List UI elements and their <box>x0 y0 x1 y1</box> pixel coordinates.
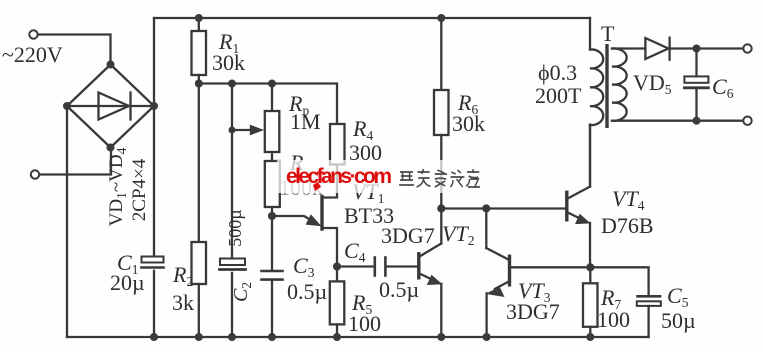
wire top supply rail <box>154 17 590 19</box>
svg-text:200T: 200T <box>535 83 582 108</box>
node C3 ground <box>268 333 276 341</box>
node C2 branch junction <box>228 80 236 88</box>
capacitor C3 <box>271 216 273 270</box>
wire VT4 emitter node to C5 <box>590 267 648 294</box>
transistor VT3 3DG7 <box>485 209 487 249</box>
diode VD5 <box>645 38 668 59</box>
svg-text:2CP4×4: 2CP4×4 <box>129 158 150 221</box>
wire upper AC to bridge top <box>38 35 111 63</box>
wire bridge left node down to ground rail (crossover) <box>66 106 68 337</box>
resistor R1 <box>198 18 200 31</box>
wire VT1 B2 to R4 <box>322 165 337 198</box>
svg-text:20µ: 20µ <box>110 270 145 295</box>
node Rp branch junction <box>268 80 276 88</box>
node R5 ground <box>333 333 341 341</box>
resistor R2 <box>198 84 200 243</box>
node C6 top <box>693 45 701 53</box>
node bridge left <box>63 102 71 110</box>
terminal DC output positive <box>743 44 751 52</box>
node VT1 B1 junction <box>333 262 341 270</box>
node bridge bottom <box>107 144 115 152</box>
resistor R 100k <box>271 152 273 161</box>
node VT3 collector junction <box>482 204 490 212</box>
bridge internal diode symbol <box>99 93 130 120</box>
node R6 top rail <box>437 14 445 22</box>
node bridge top <box>107 61 115 69</box>
node VT2 collector / R6 bottom <box>437 204 445 212</box>
bridge internal bus <box>67 105 154 107</box>
transistor VT2 3DG7 <box>417 254 420 278</box>
wire lower AC to bridge bottom <box>40 149 112 175</box>
node C6 bottom <box>693 117 701 125</box>
capacitor C1 <box>142 257 164 263</box>
wire emitter of VT1 <box>272 216 315 223</box>
node R7 ground <box>586 333 594 341</box>
watermark chinese characters <box>399 169 480 187</box>
node R1 top <box>195 14 203 22</box>
wire C1 to ground <box>153 271 155 337</box>
node R1 bottom junction <box>195 80 203 88</box>
wire secondary top to diode VD5 <box>612 47 645 49</box>
svg-text:VD1~VD4: VD1~VD4 <box>106 147 129 226</box>
wire bridge right node up to top rail <box>153 18 155 106</box>
svg-text:D76B: D76B <box>601 213 654 238</box>
wire ground bottom rail <box>67 336 649 338</box>
capacitor C5 <box>638 295 661 298</box>
svg-text:30k: 30k <box>212 50 245 75</box>
svg-text:1M: 1M <box>290 109 321 134</box>
resistor R7 <box>589 267 591 283</box>
node C2 ground <box>228 333 236 341</box>
transformer T primary winding <box>589 18 591 50</box>
terminal DC output negative <box>743 117 751 125</box>
node C1 ground <box>150 333 158 341</box>
svg-text:500µ: 500µ <box>225 209 245 246</box>
wire VT3 base to VT4 emitter node <box>511 266 591 268</box>
node VT2 emitter ground <box>437 333 445 341</box>
svg-text:100: 100 <box>348 311 381 336</box>
node R bottom / VT1 emitter junction <box>268 212 276 220</box>
resistor R6 <box>440 18 442 90</box>
svg-text:3DG7: 3DG7 <box>381 223 435 248</box>
resistor R5 <box>336 267 338 282</box>
wire base bus to VT4 <box>441 207 565 209</box>
svg-text:0.5µ: 0.5µ <box>379 277 419 302</box>
svg-text:30k: 30k <box>452 111 485 136</box>
wire VT1 B1 down <box>322 228 337 267</box>
svg-text:~220V: ~220V <box>2 42 63 67</box>
wire VD5 to output terminal <box>668 47 743 49</box>
bridge rectifier VD1-VD4 diamond <box>67 65 154 148</box>
transistor VT4 D76B <box>565 192 568 220</box>
svg-text:100: 100 <box>597 307 630 332</box>
wire B1 node to C4 <box>337 265 374 267</box>
wire bridge right node down to C1 <box>153 106 155 256</box>
terminal lower AC input <box>31 170 39 178</box>
capacitor C4 <box>373 258 376 276</box>
wire mid bus y=83.5 <box>199 84 337 125</box>
wiper arrow of Rp <box>229 127 236 134</box>
potentiometer Rp <box>271 84 273 112</box>
node R2 ground <box>195 333 203 341</box>
capacitor C6 <box>695 49 697 77</box>
resistor R4 <box>330 124 345 165</box>
node bridge right <box>150 102 158 110</box>
transformer T core <box>605 44 608 128</box>
watermark background <box>277 160 478 193</box>
transformer T secondary winding <box>612 48 627 120</box>
terminal upper AC input <box>29 30 37 38</box>
svg-text:elecfans·com: elecfans·com <box>286 165 392 188</box>
unijunction transistor VT1 BT33 <box>320 197 323 230</box>
svg-text:T: T <box>601 21 615 46</box>
svg-text:0.5µ: 0.5µ <box>287 279 327 304</box>
wire C2 to ground <box>231 273 233 337</box>
svg-text:3k: 3k <box>172 290 194 315</box>
svg-text:3DG7: 3DG7 <box>506 299 560 324</box>
wire secondary bottom to output terminal <box>612 120 743 122</box>
wire C4 to VT2 base <box>386 265 418 267</box>
svg-text:ϕ0.3: ϕ0.3 <box>538 60 577 85</box>
capacitor C2 <box>220 259 245 266</box>
node VT4 emitter junction <box>586 263 594 271</box>
svg-text:50µ: 50µ <box>661 308 696 333</box>
node VT3 emitter ground <box>483 333 491 341</box>
wire C2 branch <box>231 84 233 259</box>
